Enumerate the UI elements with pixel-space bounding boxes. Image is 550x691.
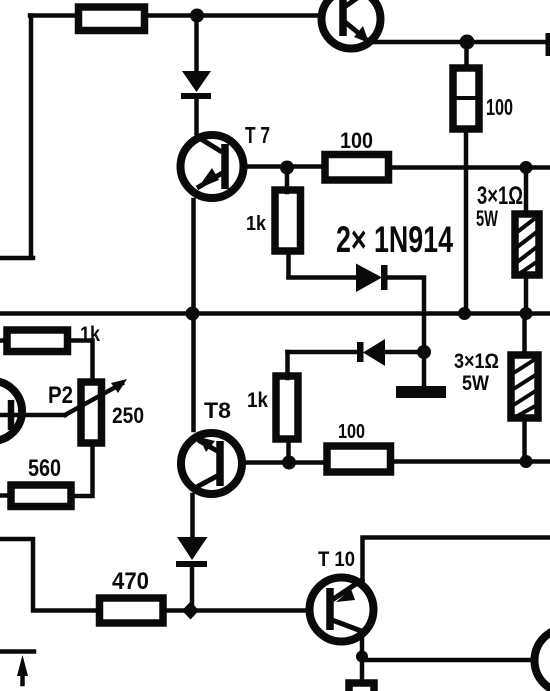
svg-text:100: 100	[338, 421, 365, 443]
svg-text:1k: 1k	[247, 389, 268, 412]
svg-text:5W: 5W	[476, 206, 498, 231]
svg-text:1k: 1k	[80, 323, 100, 346]
svg-text:P2: P2	[48, 382, 73, 409]
svg-text:100: 100	[340, 128, 373, 153]
svg-text:T8: T8	[204, 398, 231, 423]
svg-text:250: 250	[112, 403, 144, 428]
svg-text:2× 1N914: 2× 1N914	[336, 219, 453, 260]
svg-text:470: 470	[112, 568, 149, 595]
svg-text:3×1Ω: 3×1Ω	[454, 350, 499, 373]
svg-text:100: 100	[486, 94, 513, 120]
svg-text:560: 560	[28, 455, 61, 482]
svg-text:T 10: T 10	[318, 548, 355, 571]
svg-text:1k: 1k	[246, 213, 267, 235]
svg-text:5W: 5W	[462, 372, 489, 395]
svg-text:T 7: T 7	[245, 122, 270, 148]
